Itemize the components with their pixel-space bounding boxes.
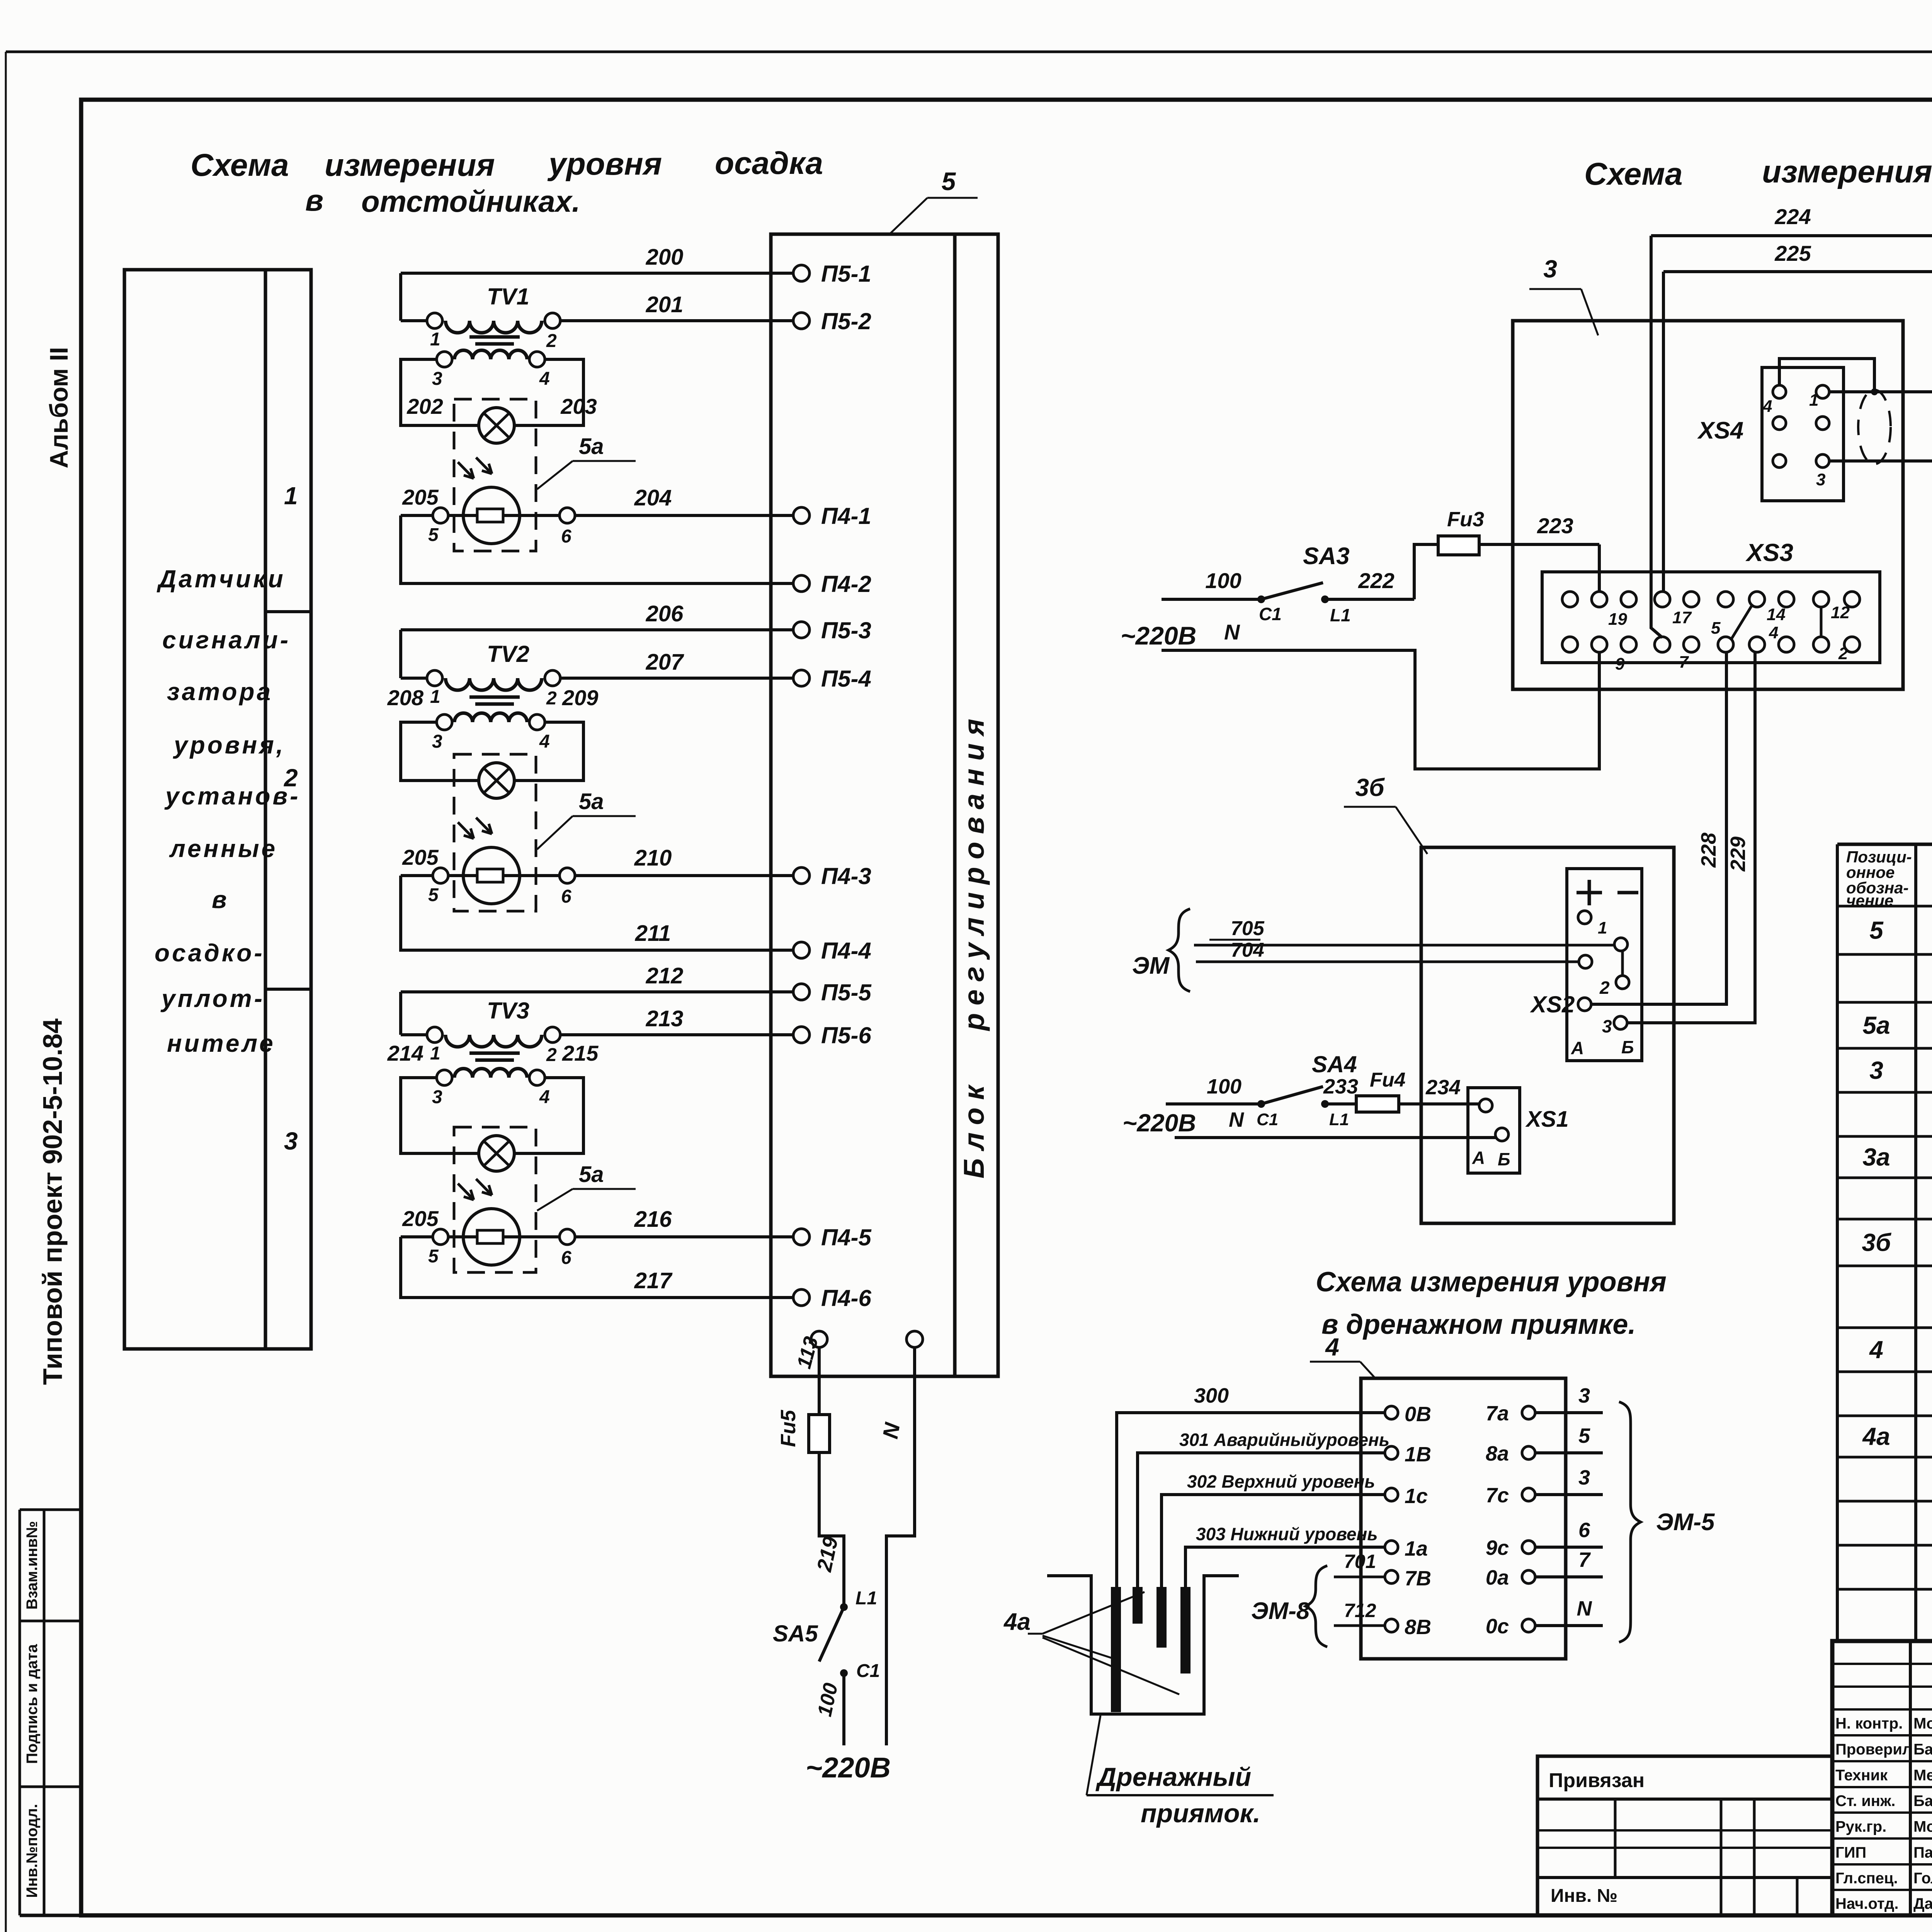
flow meter box 3 <box>1513 321 1903 689</box>
svg-text:205: 205 <box>402 1206 439 1231</box>
svg-text:4: 4 <box>1769 623 1778 642</box>
connector XS1 box <box>1468 1088 1520 1173</box>
svg-text:Проверил: Проверил <box>1835 1741 1912 1758</box>
block 4 right pin 0а <box>1486 1566 1535 1589</box>
svg-text:Нач.отд.: Нач.отд. <box>1835 1895 1898 1912</box>
svg-text:Техник: Техник <box>1835 1767 1888 1784</box>
margin label Инв.№подл. <box>24 1804 41 1898</box>
svg-text:П5-6: П5-6 <box>821 1022 872 1048</box>
XS1 pin А <box>1472 1099 1492 1168</box>
terminal П5-4 of block 5 <box>793 666 871 692</box>
svg-text:Инв. №: Инв. № <box>1551 1886 1617 1906</box>
svg-text:TV3: TV3 <box>487 998 529 1024</box>
svg-text:Павлова: Павлова <box>1913 1844 1932 1861</box>
svg-text:704: 704 <box>1231 939 1264 961</box>
XS3 pin 19 label <box>1608 610 1627 629</box>
wire 205 label <box>402 1206 439 1231</box>
svg-text:ЭМ: ЭМ <box>1132 952 1170 979</box>
wire 207 <box>401 650 793 678</box>
svg-text:П4-3: П4-3 <box>821 863 871 889</box>
table row 3а <box>1862 1143 1932 1171</box>
transformer TV2 core <box>469 697 520 704</box>
svg-text:1с: 1с <box>1405 1485 1428 1508</box>
XS2 pin wire228 <box>1578 998 1591 1011</box>
svg-text:П5-3: П5-3 <box>821 617 871 643</box>
photoresistor pins TV2 <box>433 868 575 883</box>
svg-text:1а: 1а <box>1405 1537 1428 1560</box>
transformer TV3 pin 4 label <box>539 1087 550 1107</box>
block 5 leader <box>889 167 978 235</box>
svg-text:5: 5 <box>428 885 439 905</box>
block 5 regulating unit box <box>771 234 998 1376</box>
photoresistor pin 6 label <box>561 886 571 907</box>
svg-text:Рук.гр.: Рук.гр. <box>1835 1818 1886 1835</box>
wire 216 <box>575 1207 793 1237</box>
wire 205 stub <box>401 874 433 877</box>
svg-text:уровня,: уровня, <box>173 731 286 759</box>
wire 200 <box>401 245 793 273</box>
svg-text:1: 1 <box>284 482 298 510</box>
svg-text:П4-4: П4-4 <box>821 938 871 964</box>
svg-text:Мосеенко: Мосеенко <box>1913 1818 1932 1835</box>
wire 201 <box>401 292 793 321</box>
box 3б leader <box>1344 774 1427 854</box>
wire 300 <box>1117 1384 1385 1587</box>
XS3 pin 17 label <box>1672 608 1692 627</box>
transformer TV3 pin 2 label <box>546 1045 557 1065</box>
svg-text:211: 211 <box>635 921 671 946</box>
block 4 right pin 9с <box>1486 1536 1535 1560</box>
ЭМ-8 brace <box>1251 1566 1327 1647</box>
wire 223 <box>1479 514 1599 544</box>
svg-text:9: 9 <box>1615 655 1625 673</box>
photoresistor of TV3 <box>458 1179 520 1265</box>
fuse Fu5 <box>777 1410 830 1452</box>
svg-text:в: в <box>212 886 229 913</box>
XS3 pin 14 label <box>1767 605 1786 624</box>
transformer TV1 core <box>469 337 520 344</box>
svg-text:Н. контр.: Н. контр. <box>1835 1715 1903 1732</box>
svg-text:4а: 4а <box>1003 1609 1031 1635</box>
table row 3 <box>1869 1056 1932 1084</box>
svg-text:3: 3 <box>1869 1056 1883 1084</box>
transformer TV1 pin 4 label <box>539 369 550 389</box>
switch SA5 <box>773 1588 880 1681</box>
wire 211 <box>401 876 793 950</box>
svg-text:А: А <box>1571 1038 1584 1058</box>
svg-text:5а: 5а <box>579 789 604 814</box>
secondary loop wire <box>401 1078 479 1153</box>
table header Позиционное обозначение <box>1846 848 1912 910</box>
svg-text:224: 224 <box>1774 204 1811 229</box>
svg-text:П5-4: П5-4 <box>821 666 871 692</box>
svg-text:3: 3 <box>284 1127 298 1155</box>
margin label Взам.инв№ <box>24 1521 41 1609</box>
svg-text:L1: L1 <box>1330 605 1351 625</box>
svg-text:приямок.: приямок. <box>1141 1799 1260 1828</box>
title block row Техник Меновщиков <box>1835 1765 1932 1784</box>
wire 206 left riser <box>399 630 402 678</box>
wire XS4 pin3 to 227 <box>1829 461 1932 691</box>
XS3 pin 12 label <box>1831 603 1850 622</box>
wire 212 left riser <box>399 992 402 1035</box>
block 4 left pin 1с <box>1385 1485 1428 1508</box>
transformer TV3 core <box>469 1053 520 1060</box>
terminal П5-2 of block 5 <box>793 308 871 334</box>
svg-text:XS2: XS2 <box>1530 992 1575 1017</box>
svg-text:1: 1 <box>1598 918 1607 937</box>
transformer TV2 secondary <box>437 713 545 730</box>
svg-text:214: 214 <box>387 1041 423 1065</box>
XS4 cable marker <box>1858 390 1891 464</box>
svg-text:205: 205 <box>402 845 439 869</box>
svg-text:3б: 3б <box>1355 774 1385 801</box>
linked-project box <box>1537 1756 1832 1915</box>
svg-text:6: 6 <box>561 526 571 547</box>
wire 205 stub <box>401 514 433 517</box>
svg-text:Данилов.: Данилов. <box>1913 1895 1932 1912</box>
wire 222 <box>1325 568 1414 599</box>
wire N from block 5 <box>878 1347 915 1745</box>
block 4 left pin 1а <box>1385 1537 1428 1560</box>
transformer TV2 pin 1 label <box>430 687 440 707</box>
svg-text:Альбом II: Альбом II <box>44 347 73 468</box>
wire 215 label <box>562 1041 599 1065</box>
svg-text:ЭМ-5: ЭМ-5 <box>1656 1509 1715 1536</box>
wire 712 <box>1334 1600 1385 1626</box>
svg-text:1: 1 <box>1809 391 1818 410</box>
sensor box number 1 <box>284 482 298 510</box>
svg-text:А: А <box>1472 1148 1485 1168</box>
svg-text:П5-1: П5-1 <box>821 261 871 287</box>
svg-text:205: 205 <box>402 485 439 509</box>
svg-text:чение: чение <box>1846 891 1893 910</box>
svg-text:5а: 5а <box>579 434 604 459</box>
svg-text:712: 712 <box>1344 1600 1376 1621</box>
svg-text:302 Верхний уровень: 302 Верхний уровень <box>1187 1471 1375 1492</box>
svg-text:206: 206 <box>646 601 684 626</box>
svg-text:Схема: Схема <box>190 148 289 183</box>
table row 3б <box>1862 1229 1932 1257</box>
secondary loop wire <box>401 359 479 425</box>
svg-text:301 Аварийныйуровень: 301 Аварийныйуровень <box>1179 1430 1389 1450</box>
svg-text:Гл.спец.: Гл.спец. <box>1835 1870 1898 1887</box>
svg-text:0с: 0с <box>1486 1615 1509 1638</box>
svg-text:Бакшеева: Бакшеева <box>1913 1741 1932 1758</box>
switch SA3 feed wire 100 <box>1162 568 1261 599</box>
sensor box number 3 <box>284 1127 298 1155</box>
block 4 output wire 6 at 4004 <box>1535 1519 1603 1547</box>
svg-text:3: 3 <box>1543 255 1557 283</box>
sensor box text установ- <box>164 782 300 810</box>
svg-text:701: 701 <box>1344 1551 1376 1572</box>
XS4 pin 4 <box>1762 385 1786 416</box>
svg-text:5: 5 <box>1578 1424 1590 1447</box>
svg-text:212: 212 <box>646 963 684 988</box>
block 4 output wire 3 at 3868 <box>1535 1466 1603 1495</box>
XS2 polarity + - <box>1577 880 1638 905</box>
svg-text:3: 3 <box>1816 470 1825 489</box>
wire 224 drop to XS3 pin 7 <box>1651 236 1662 638</box>
svg-text:203: 203 <box>560 394 597 418</box>
XS4 pin 3 <box>1773 454 1829 489</box>
svg-text:209: 209 <box>562 685 598 710</box>
svg-text:4: 4 <box>1869 1336 1883 1364</box>
XS3 link pin12 to pin2 <box>1820 607 1823 637</box>
svg-text:установ-: установ- <box>164 782 300 810</box>
block 4 right pin 0с <box>1486 1615 1535 1638</box>
linked-project label Инв № <box>1551 1886 1617 1906</box>
svg-text:213: 213 <box>646 1006 684 1031</box>
svg-text:Инв.№подл.: Инв.№подл. <box>24 1804 41 1898</box>
svg-text:измерения: измерения <box>325 148 495 183</box>
svg-text:Fu3: Fu3 <box>1447 508 1484 531</box>
svg-text:6: 6 <box>1578 1519 1590 1542</box>
svg-text:5а: 5а <box>1862 1012 1890 1039</box>
sensor box dividers <box>265 612 311 989</box>
transformer TV2 primary <box>427 641 560 690</box>
svg-text:SA3: SA3 <box>1303 543 1350 570</box>
svg-text:Б: Б <box>1498 1149 1510 1169</box>
label Дренажный приямок <box>1087 1716 1274 1828</box>
svg-text:Привязан: Привязан <box>1549 1769 1645 1792</box>
svg-text:8В: 8В <box>1405 1616 1431 1639</box>
svg-text:233: 233 <box>1323 1075 1358 1098</box>
transformer TV3 pin 3 label <box>432 1087 442 1107</box>
svg-text:~220В: ~220В <box>806 1752 891 1784</box>
svg-text:216: 216 <box>634 1207 672 1232</box>
wire 205 label <box>402 485 439 509</box>
wire 229 <box>1627 653 1755 1023</box>
svg-text:С1: С1 <box>856 1661 880 1681</box>
sensor box text в <box>212 886 229 913</box>
sensor 5а dashed outline TV3 <box>454 1127 536 1272</box>
connector XS3 box <box>1542 572 1880 663</box>
svg-text:2: 2 <box>546 331 557 351</box>
svg-text:3: 3 <box>432 731 442 752</box>
svg-text:~220В: ~220В <box>1121 621 1196 650</box>
svg-text:Бакшеева: Бакшеева <box>1913 1793 1932 1810</box>
wire N to XS3 pin 9 <box>1162 620 1599 769</box>
signal lamp of group TV1 <box>479 408 514 443</box>
wire 213 <box>401 1006 793 1035</box>
svg-text:4: 4 <box>539 731 550 752</box>
svg-text:201: 201 <box>646 292 684 317</box>
title block row Рук.гр. Мосеенко <box>1835 1818 1932 1836</box>
wire XS4 pin1 to 226 <box>1829 392 1932 641</box>
XS3 pin 2 label <box>1838 644 1848 663</box>
secondary loop right wire <box>514 359 583 425</box>
connector XS4 label <box>1697 417 1743 444</box>
wire 225 <box>1663 241 1932 272</box>
sensor box text ленные <box>169 835 277 862</box>
margin label Альбом II <box>44 347 73 468</box>
svg-text:TV1: TV1 <box>487 284 529 310</box>
svg-text:2: 2 <box>546 688 557 709</box>
box 3 leader <box>1529 255 1598 335</box>
transformer TV1 pin 3 label <box>432 369 442 389</box>
switch SA3 <box>1257 543 1351 625</box>
wire 233 <box>1323 1075 1358 1104</box>
block 4 left pin 0В <box>1385 1403 1431 1426</box>
wire 222 riser <box>1414 544 1438 599</box>
sensor description box <box>124 270 311 1349</box>
wire 223 drop to XS3 pin 19 <box>1598 544 1601 592</box>
block 4 output wire N at 4207 <box>1535 1597 1603 1626</box>
XS3 link pin5 to pin14 <box>1731 605 1752 639</box>
svg-text:3а: 3а <box>1862 1143 1890 1171</box>
svg-text:SA5: SA5 <box>773 1621 818 1646</box>
svg-text:2: 2 <box>546 1045 557 1065</box>
svg-text:234: 234 <box>1425 1076 1461 1099</box>
sensor box number 2 <box>284 764 298 792</box>
svg-text:200: 200 <box>646 245 684 270</box>
wire 205 label <box>402 845 439 869</box>
transformer TV1 secondary <box>437 350 545 367</box>
XS2 link <box>1621 951 1624 976</box>
svg-text:7с: 7с <box>1486 1484 1509 1507</box>
svg-text:сигнали-: сигнали- <box>162 626 291 654</box>
svg-text:ленные: ленные <box>169 835 277 862</box>
svg-text:3: 3 <box>432 369 442 389</box>
svg-text:П5-2: П5-2 <box>821 308 871 334</box>
svg-text:100: 100 <box>1207 1075 1242 1098</box>
transformer TV2 pin 4 label <box>539 731 550 752</box>
svg-text:в: в <box>305 183 323 217</box>
title block frame <box>1832 1641 1932 1915</box>
svg-text:П4-2: П4-2 <box>821 571 871 597</box>
svg-text:6: 6 <box>561 886 571 907</box>
ЭМ-5 brace <box>1619 1402 1715 1642</box>
svg-text:П4-1: П4-1 <box>821 503 871 529</box>
linked-project label Привязан <box>1549 1769 1645 1792</box>
signal lamp of group TV2 <box>479 763 514 798</box>
svg-text:4: 4 <box>1325 1333 1339 1361</box>
connector XS2 box <box>1567 869 1642 1061</box>
svg-text:217: 217 <box>634 1268 673 1293</box>
block 4 right pin 7с <box>1486 1484 1535 1507</box>
svg-text:Fu4: Fu4 <box>1370 1069 1406 1091</box>
title block row ГИП Павлова <box>1835 1844 1932 1861</box>
svg-text:Блок регулирования: Блок регулирования <box>958 711 990 1179</box>
photoresistor pins TV1 <box>433 508 575 523</box>
transformer TV3 primary <box>427 998 560 1047</box>
svg-text:L1: L1 <box>855 1588 877 1609</box>
sensor box text нителе <box>167 1029 276 1057</box>
svg-text:207: 207 <box>646 650 685 675</box>
block 4 output wire 3 at 3656 <box>1535 1384 1603 1413</box>
wire 212 <box>401 963 793 992</box>
sensor 5а leader TV2 <box>537 789 636 849</box>
svg-text:Датчики: Датчики <box>156 565 286 593</box>
electrode 4а #4 <box>1180 1587 1190 1673</box>
svg-text:5: 5 <box>1711 619 1721 638</box>
transformer TV1 pin 1 label <box>430 329 440 350</box>
wire 302 Верхний уровень <box>1162 1471 1385 1587</box>
svg-text:отстойниках.: отстойниках. <box>361 184 580 218</box>
block 4 left pin 1В <box>1385 1443 1431 1466</box>
svg-text:N: N <box>1229 1108 1244 1131</box>
XS1 pin Б <box>1495 1128 1510 1169</box>
svg-text:5: 5 <box>1869 917 1884 944</box>
svg-text:17: 17 <box>1672 608 1692 627</box>
XS4 pin 4 jumper <box>1779 359 1878 395</box>
sensor 5а leader TV3 <box>537 1162 636 1211</box>
svg-text:5а: 5а <box>579 1162 604 1187</box>
svg-text:С1: С1 <box>1257 1110 1278 1129</box>
svg-text:14: 14 <box>1767 605 1786 624</box>
terminal П4-5 of block 5 <box>793 1225 872 1250</box>
photoresistor pin 5 label <box>428 525 439 545</box>
svg-text:Типовой проект 902-5-10.84: Типовой проект 902-5-10.84 <box>37 1019 68 1385</box>
title block row Гл.спец. Гольцман <box>1835 1870 1932 1887</box>
label ~220В bottom <box>806 1752 891 1784</box>
photoresistor of TV2 <box>458 818 520 904</box>
margin label Типовой проект 902-5-10.84 <box>37 1019 68 1385</box>
svg-text:Fu5: Fu5 <box>777 1410 800 1447</box>
svg-text:XS4: XS4 <box>1697 417 1743 444</box>
wire 210 <box>575 845 793 876</box>
svg-text:уровня: уровня <box>547 146 662 182</box>
margin stamp strip <box>20 1510 81 1915</box>
XS2 label <box>1530 992 1575 1017</box>
wire 203 label <box>560 394 597 418</box>
wire 209 label <box>562 685 598 710</box>
svg-text:4: 4 <box>1762 397 1772 416</box>
terminal П4-1 of block 5 <box>793 503 871 529</box>
electrode 4а #2 <box>1133 1587 1143 1624</box>
svg-text:2: 2 <box>1838 644 1848 663</box>
svg-text:7: 7 <box>1679 653 1689 672</box>
photoresistor pin 5 label <box>428 1246 439 1267</box>
svg-text:5: 5 <box>942 167 956 196</box>
transformer TV3 secondary <box>437 1069 545 1086</box>
title block row Нач.отд. Данилов. <box>1835 1895 1932 1913</box>
svg-text:измерения: измерения <box>1762 154 1932 189</box>
svg-text:705: 705 <box>1231 917 1265 940</box>
level regulator block 4 <box>1361 1378 1566 1659</box>
wire <box>401 515 793 583</box>
wire 204 <box>575 485 793 515</box>
table row 5 <box>1869 917 1932 944</box>
terminal П4-2 of block 5 <box>793 571 871 597</box>
block 4 left pin 8В <box>1385 1616 1431 1639</box>
svg-text:Схема измерения уровня: Схема измерения уровня <box>1316 1267 1667 1298</box>
svg-text:1: 1 <box>430 329 440 350</box>
svg-text:300: 300 <box>1194 1384 1229 1407</box>
secondary loop wire <box>401 722 479 781</box>
XS4 middle pins <box>1773 417 1829 430</box>
sensor 5а dashed outline TV1 <box>454 399 536 551</box>
svg-text:202: 202 <box>406 394 443 418</box>
wire 113 label <box>793 1334 823 1371</box>
sensor box text Датчики <box>156 565 286 593</box>
XS2 pin for wire 704 <box>1579 955 1592 968</box>
drainage pit outline <box>1047 1576 1239 1714</box>
sensor 5а leader TV1 <box>537 434 636 489</box>
svg-text:8а: 8а <box>1486 1442 1509 1465</box>
svg-text:Ст. инж.: Ст. инж. <box>1835 1793 1895 1810</box>
svg-text:Мосеенко: Мосеенко <box>1913 1715 1932 1732</box>
XS2 pin 1 <box>1578 911 1607 937</box>
svg-text:П5-5: П5-5 <box>821 980 872 1005</box>
svg-text:3: 3 <box>432 1087 442 1107</box>
wire 202 label <box>406 394 443 418</box>
sensor 5а dashed outline TV2 <box>454 754 536 911</box>
sensor box text уровня, <box>173 731 286 759</box>
wire 301 Аварийный уровень <box>1138 1430 1389 1587</box>
transformer TV1 pin 2 label <box>546 331 557 351</box>
